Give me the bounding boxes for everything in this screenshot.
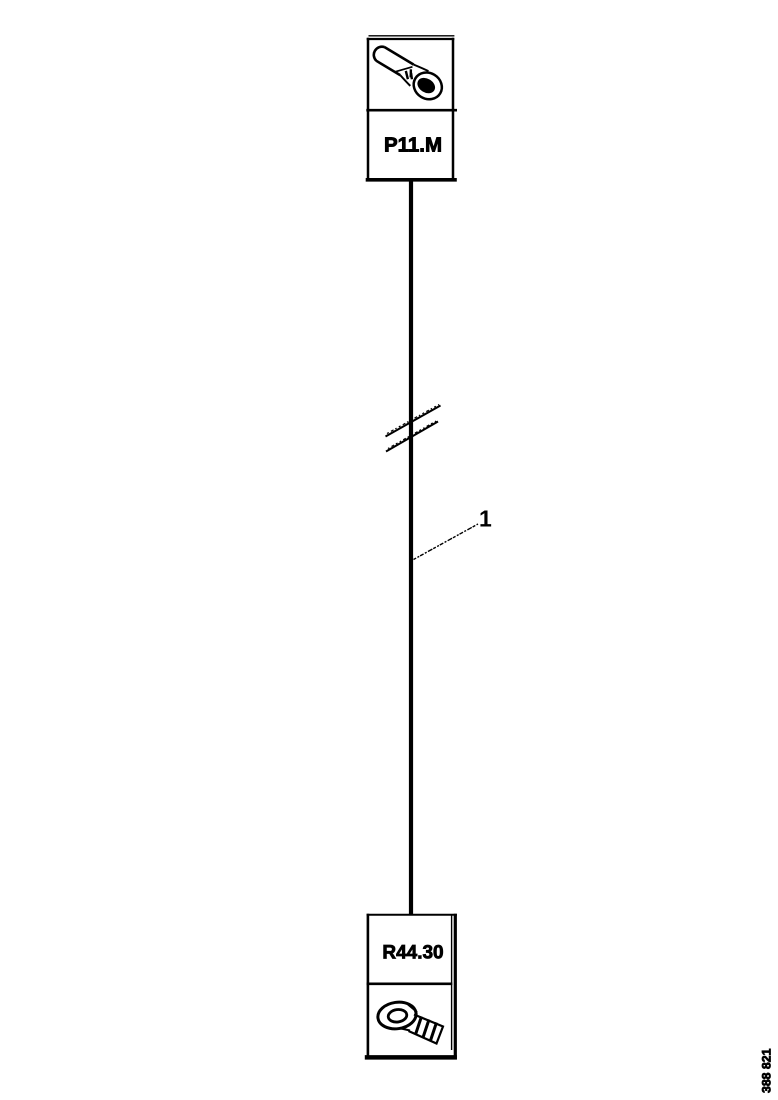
terminal lug icon (P11.M) (367, 42, 447, 104)
leader line to wire label (414, 524, 479, 560)
svg-text:1: 1 (479, 506, 492, 532)
connector R44.30 box (365, 914, 457, 1060)
connector P11.M box (366, 36, 457, 181)
svg-text:388 821: 388 821 (760, 1048, 774, 1093)
wire break symbol (386, 405, 441, 452)
wire 1 (409, 180, 413, 916)
svg-text:R44.30: R44.30 (382, 943, 443, 964)
ring terminal icon (R44.30) (376, 1000, 443, 1044)
svg-text:P11.M: P11.M (384, 134, 442, 157)
